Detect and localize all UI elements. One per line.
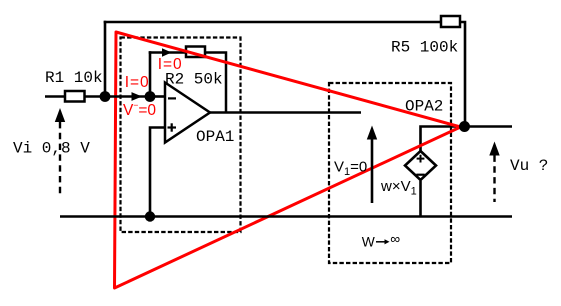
svg-text:R1 10k: R1 10k [45,69,103,87]
node A junction dot (after R1) [100,91,111,102]
wire: output node left to dependent source branch [421,127,465,153]
svg-text:R2 50k: R2 50k [165,71,223,89]
svg-text:R5 100k: R5 100k [391,39,458,57]
resistor R1 [65,91,85,102]
wire: R2 right side to corner then down to OPA1 output [205,53,226,113]
OPA1 inverting input minus sign [168,97,176,99]
wire: R1 to node A [85,95,106,98]
junction dot on bottom rail (ground reference) [145,211,155,221]
resistor R2 [186,47,205,58]
svg-text:V1=0: V1=0 [334,159,367,179]
output node junction dot [459,121,470,132]
wire: riser node A up to top feedback rail [104,21,107,97]
svg-text:I=0: I=0 [125,74,150,91]
op-amp U1 ideal-model dashed boundary box (OPA1) [121,38,241,233]
Vu output voltage dashed arrow [489,142,499,156]
svg-text:OPA1: OPA1 [196,128,234,146]
annotation: red ideal-op-amp triangle overlay [115,32,461,288]
dependent source minus sign [416,174,424,176]
node B junction dot (inverting input node) [145,91,156,102]
OPA1 non-inverting input plus sign [168,126,177,128]
current direction arrowhead on R2 feedback wire [162,48,172,57]
wire: node A to node B (with current arrow) [105,95,150,98]
wire: riser node B up to R2 feedback branch [149,51,152,96]
op-amp U1 triangle symbol (OPA1) [165,83,210,143]
svg-text:w×V1: w×V1 [380,178,417,198]
wire: R5 to corner then down to output node [460,22,465,127]
wire: non-inverting input to ground riser [150,128,165,217]
op-amp U2 ideal-model dashed boundary box (OPA2) [329,83,451,263]
resistor R5 [441,16,460,27]
svg-text:V−=0: V−=0 [123,100,156,119]
svg-text:OPA2: OPA2 [405,98,443,116]
svg-text:Vu ?: Vu ? [510,157,548,175]
svg-text:W: W [362,235,375,250]
wire: bottom common rail [60,215,512,218]
wire: output node to right terminal [465,125,513,128]
wire: OPA1 output to OPA2 input [210,111,361,114]
wire: feedback branch node B to R2 (with current arrow) [149,51,186,54]
current direction arrowhead on input wire [132,92,143,101]
wire: input segment from source to R1 [45,95,66,98]
svg-text:∞: ∞ [390,232,400,247]
wire: dependent source bottom to bottom rail [419,181,422,217]
svg-text:Vi 0,8 V: Vi 0,8 V [13,140,90,158]
V1 measurement arrow (solid, inside OPA2 box) [371,137,374,203]
dependent source W*V1 diamond symbol [405,151,436,180]
wire: top rail from riser to R5 [104,21,441,24]
dependent source plus sign [417,158,425,160]
Vi input voltage dashed arrow [55,108,65,122]
wire: node B to OPA1 inverting input [150,95,166,98]
